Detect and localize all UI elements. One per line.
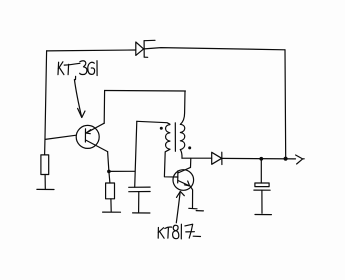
ground (C1) — [133, 212, 150, 214]
transformer polarity dot right — [188, 146, 191, 149]
wire top horizontal to transformer — [105, 90, 186, 93]
transformer T1 left winding — [166, 125, 170, 150]
transformer T1 right winding — [180, 124, 184, 149]
output arrow — [296, 155, 305, 164]
capacitor C1 — [129, 187, 150, 212]
transformer polarity dot left — [160, 127, 163, 130]
ground (R1) — [37, 188, 54, 190]
ground (VT2 emitter) — [189, 208, 204, 211]
diode VD1 (zener, top rail) — [136, 40, 155, 57]
wire vertical C1 branch — [135, 121, 137, 187]
wire corner to left winding — [137, 121, 170, 124]
transistor VT1 KT-361 — [76, 123, 107, 151]
transformer T1 core — [174, 123, 176, 152]
wire collector VT1 down — [108, 152, 109, 172]
wire left rail — [45, 51, 47, 155]
ground (R2) — [103, 211, 121, 213]
wire to diode VD2 — [182, 157, 212, 159]
label KT817 — [158, 224, 200, 239]
label arrow KT-361 — [74, 80, 85, 118]
node A (junction dot) — [107, 170, 111, 174]
resistor R1 — [41, 155, 49, 189]
transistor VT2 KT817 — [173, 167, 194, 190]
wire collector VT2 up — [190, 158, 192, 167]
wire right winding bottom lead — [180, 150, 182, 159]
node C (junction dot right rail) — [284, 157, 288, 161]
ground (C2) — [255, 214, 271, 216]
wire top rail left segment — [47, 49, 136, 52]
label KT-361 — [58, 61, 97, 80]
label arrow KT817 — [176, 191, 184, 222]
wire output rail — [222, 157, 296, 160]
wire emitter VT1 up — [103, 91, 105, 124]
wire junction to C1 branch — [109, 170, 135, 172]
wire base VT1 — [45, 135, 76, 139]
resistor R2 — [106, 171, 115, 211]
wire base lead VT2 from left winding — [164, 149, 178, 177]
capacitor C2 — [254, 159, 270, 214]
diode VD2 — [212, 152, 222, 164]
wire right rail — [284, 50, 287, 159]
node B (junction dot C2) — [259, 157, 263, 161]
wire emitter VT2 down — [190, 186, 192, 207]
wire top rail right segment — [144, 48, 285, 50]
wire right winding top lead — [180, 91, 185, 124]
